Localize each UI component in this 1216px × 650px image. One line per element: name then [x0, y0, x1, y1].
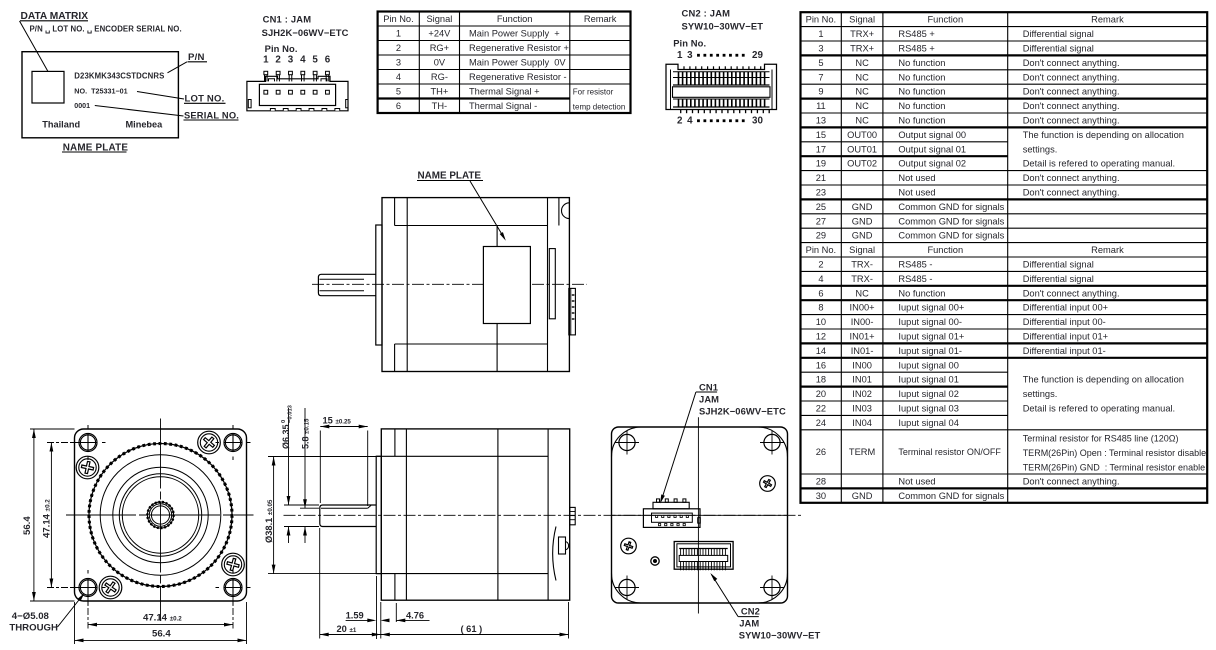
svg-text:Main Power Supply +: Main Power Supply +: [469, 29, 560, 39]
rear view: hole top-right: [764, 434, 780, 450]
svg-text:Signal: Signal: [849, 15, 875, 25]
svg-text:TH-: TH-: [432, 101, 448, 111]
side view top: front flange: [376, 225, 382, 345]
svg-text:15: 15: [816, 130, 826, 140]
svg-text:0V: 0V: [434, 58, 446, 68]
svg-text:Differential input 00+: Differential input 00+: [1023, 303, 1108, 313]
front view: screw top-left: [76, 456, 99, 479]
side view top: name plate on motor: [483, 247, 530, 324]
svg-text:Differential input 01-: Differential input 01-: [1023, 346, 1106, 356]
svg-text:Differential input 01+: Differential input 01+: [1023, 332, 1108, 342]
svg-text:22: 22: [816, 404, 826, 414]
svg-text:30: 30: [752, 116, 763, 127]
side view bottom: stator lines: [376, 455, 548, 457]
side view top: front endbell lines: [394, 198, 396, 226]
rear view: corner arc bottom-left: [612, 574, 642, 604]
svg-text:Thermal Signal -: Thermal Signal -: [469, 101, 537, 111]
svg-text:28: 28: [816, 477, 826, 487]
svg-text:Iuput signal 00+: Iuput signal 00+: [898, 303, 964, 313]
side view top: motor body outline: [382, 198, 569, 372]
svg-text:CN1: CN1: [699, 381, 718, 392]
svg-text:D23KMK343CSTDCNRS: D23KMK343CSTDCNRS: [74, 71, 164, 80]
dimension 20 +-1: [319, 528, 321, 639]
leader SERIAL NO.: [95, 106, 184, 117]
rear view: screw left-lower: [621, 538, 637, 554]
svg-text:4: 4: [396, 72, 401, 82]
front view: mounting hole bottom-left: [79, 579, 97, 597]
connector CN1 housing top view: [247, 76, 348, 111]
side view top: connector boss rect: [549, 249, 555, 319]
svg-text:1: 1: [396, 29, 401, 39]
svg-text:16: 16: [816, 360, 826, 370]
svg-text:18: 18: [816, 375, 826, 385]
svg-text:Thermal Signal +: Thermal Signal +: [469, 87, 540, 97]
side view top: center line: [312, 283, 587, 285]
svg-text:Differential signal: Differential signal: [1023, 44, 1094, 54]
svg-text:TRX+: TRX+: [850, 44, 874, 54]
svg-text:2: 2: [818, 260, 823, 270]
svg-text:Detail is refered to operating: Detail is refered to operating manual.: [1023, 159, 1175, 169]
svg-text:19: 19: [816, 159, 826, 169]
svg-text:No function: No function: [898, 72, 945, 82]
front view: mounting hole top-left: [79, 434, 97, 452]
side view top: rear connector edge: [569, 288, 576, 335]
svg-text:Don't connect anything.: Don't connect anything.: [1023, 477, 1120, 487]
side view top: rear screw boss arc: [558, 198, 560, 226]
svg-text:Pin No.: Pin No.: [383, 14, 414, 24]
dimension 5.8 shaft flat: [304, 408, 306, 508]
rear view: crosshair horizontal solid segment: [612, 514, 788, 516]
svg-text:For resistor: For resistor: [573, 88, 614, 97]
table verticals: [840, 12, 842, 503]
svg-text:2 4: 2 4: [677, 116, 694, 127]
CN2 inner walls: [670, 70, 672, 110]
svg-text:Don't connect anything.: Don't connect anything.: [1023, 173, 1120, 183]
svg-text:Output signal 02: Output signal 02: [898, 159, 966, 169]
svg-text:Remark: Remark: [584, 14, 617, 24]
svg-text:29: 29: [816, 231, 826, 241]
svg-text:TRX-: TRX-: [851, 274, 873, 284]
dimension 56.4 left: [30, 428, 75, 430]
svg-text:SERIAL NO.: SERIAL NO.: [184, 110, 239, 120]
front view: mounting hole top-right: [224, 434, 242, 452]
CN1 bottom notches: [270, 109, 275, 111]
svg-text:12: 12: [816, 332, 826, 342]
svg-text:IN01+: IN01+: [850, 332, 875, 342]
rear view: CN2 connector: [674, 542, 733, 570]
svg-text:RS485 +: RS485 +: [898, 29, 934, 39]
rear view: body outline: [612, 427, 788, 603]
side view bottom: rear screw detail: [559, 537, 566, 554]
svg-text:5: 5: [312, 55, 318, 66]
side view top: shaft: [318, 274, 376, 295]
svg-text:CN2: CN2: [741, 605, 760, 616]
svg-text:RG+: RG+: [430, 43, 449, 53]
svg-text:Detail is refered to operating: Detail is refered to operating manual.: [1023, 404, 1175, 414]
connector CN2 top view housing: [666, 64, 777, 109]
svg-text:4−Ø5.08: 4−Ø5.08: [12, 611, 50, 622]
CN1 contact squares: [264, 90, 268, 94]
svg-text:No function: No function: [898, 288, 945, 298]
svg-text:Terminal resistor for RS485 li: Terminal resistor for RS485 line (120Ω): [1023, 433, 1179, 443]
rear view: ground screw: [651, 557, 659, 565]
name plate box: [22, 52, 178, 138]
svg-text:IN04: IN04: [852, 418, 872, 428]
svg-text:JAM: JAM: [739, 618, 759, 629]
svg-text:IN00+: IN00+: [850, 303, 875, 313]
rear view: corner arc bottom-right: [758, 574, 788, 604]
svg-text:56.4: 56.4: [22, 516, 33, 535]
side view bottom: rear shaft stub: [570, 507, 576, 524]
svg-text:Not used: Not used: [898, 477, 935, 487]
svg-text:Iuput signal 04: Iuput signal 04: [898, 418, 958, 428]
svg-text:1: 1: [818, 29, 823, 39]
side view bottom: center line: [284, 514, 802, 516]
svg-text:GND: GND: [852, 231, 873, 241]
svg-text:No function: No function: [898, 58, 945, 68]
svg-text:Not used: Not used: [898, 173, 935, 183]
svg-text:29: 29: [752, 50, 763, 61]
leader name plate: [470, 181, 504, 238]
rear view: corner arc top-left: [612, 427, 642, 457]
svg-text:Differential input 00-: Differential input 00-: [1023, 317, 1106, 327]
svg-text:RS485 -: RS485 -: [898, 274, 932, 284]
front view: pilot boss circles: [119, 474, 201, 556]
svg-text:Common GND for signals: Common GND for signals: [898, 202, 1004, 212]
side view top: mid body line: [496, 226, 498, 247]
svg-text:Iuput signal 00-: Iuput signal 00-: [898, 317, 962, 327]
svg-text:Pin No.: Pin No.: [673, 38, 706, 49]
svg-text:THROUGH: THROUGH: [9, 623, 58, 634]
CN2 bottom pins: [680, 110, 682, 114]
dimension O38.1: [268, 456, 376, 458]
svg-text:25: 25: [816, 202, 826, 212]
svg-text:Ø6.35: Ø6.35: [281, 424, 291, 449]
svg-text:NC: NC: [855, 58, 869, 68]
svg-text:TERM(26Pin) GND : Terminal re: TERM(26Pin) GND : Terminal resistor enab…: [1023, 462, 1205, 472]
front view: square body: [75, 429, 247, 601]
svg-text:6: 6: [396, 101, 401, 111]
svg-text:CN2 : JAM: CN2 : JAM: [682, 8, 731, 19]
svg-text:GND: GND: [852, 216, 873, 226]
svg-text:Function: Function: [927, 245, 963, 255]
svg-text:NC: NC: [855, 72, 869, 82]
svg-text:P/N ␣ LOT NO. ␣ ENCODER SERIAL: P/N ␣ LOT NO. ␣ ENCODER SERIAL NO.: [30, 25, 182, 34]
svg-text:TERM: TERM: [849, 447, 875, 457]
front view: mounting hole bottom-right: [224, 579, 242, 597]
side view bottom: rear cover arc: [553, 527, 556, 581]
svg-text:1.59: 1.59: [346, 610, 364, 620]
svg-text:Thailand: Thailand: [42, 119, 80, 129]
svg-text:27: 27: [816, 216, 826, 226]
svg-text:Terminal resistor ON/OFF: Terminal resistor ON/OFF: [898, 447, 1001, 457]
CN2 upper comb: [673, 71, 770, 73]
svg-text:8: 8: [818, 303, 823, 313]
dimension O6.35 shaft: [288, 408, 290, 505]
svg-text:11: 11: [816, 101, 826, 111]
svg-text:OUT00: OUT00: [847, 130, 877, 140]
svg-text:Remark: Remark: [1091, 15, 1124, 25]
front view: hub rings: [147, 502, 173, 528]
svg-text:5: 5: [396, 87, 401, 97]
svg-text:Differential signal: Differential signal: [1023, 274, 1094, 284]
leader LOT NO.: [137, 92, 184, 100]
rear view: hole bottom-right: [764, 579, 780, 595]
CN1 side tab right: [346, 100, 348, 108]
svg-text:Main Power Supply 0V: Main Power Supply 0V: [469, 58, 566, 68]
svg-text:+24V: +24V: [428, 29, 451, 39]
svg-text:Common GND for signals: Common GND for signals: [898, 216, 1004, 226]
svg-text:NO. T25331−01: NO. T25331−01: [74, 87, 127, 96]
svg-text:IN00-: IN00-: [851, 317, 874, 327]
CN2 lower comb: [673, 98, 770, 100]
svg-text:NC: NC: [855, 101, 869, 111]
svg-text:SYW10−30WV−ET: SYW10−30WV−ET: [739, 630, 821, 641]
svg-text:Don't connect anything.: Don't connect anything.: [1023, 58, 1120, 68]
dimension 1.59: [376, 576, 378, 639]
dimension (61): [568, 602, 570, 639]
svg-text:settings.: settings.: [1023, 144, 1058, 154]
svg-text:No function: No function: [898, 87, 945, 97]
svg-text:4: 4: [300, 55, 306, 66]
svg-text:Output signal 01: Output signal 01: [898, 144, 966, 154]
svg-text:Regenerative Resistor +: Regenerative Resistor +: [469, 43, 569, 53]
svg-text:SYW10−30WV−ET: SYW10−30WV−ET: [682, 21, 764, 32]
svg-text:Don't connect anything.: Don't connect anything.: [1023, 188, 1120, 198]
svg-text:6: 6: [325, 55, 331, 66]
svg-text:7: 7: [818, 72, 823, 82]
dimension 4.76: [395, 603, 397, 622]
svg-text:IN03: IN03: [852, 404, 872, 414]
CN2 top tiny pins: [683, 66, 685, 69]
svg-text:No function: No function: [898, 116, 945, 126]
front view: circle r60: [100, 455, 221, 576]
CN1 pin prongs: [264, 71, 268, 74]
svg-text:Pin No.: Pin No.: [806, 245, 837, 255]
table horizontal rules (odd section): [801, 26, 1208, 28]
svg-text:Iuput signal 01+: Iuput signal 01+: [898, 332, 964, 342]
CN2 middle slot: [673, 87, 771, 98]
svg-text:3: 3: [288, 55, 294, 66]
svg-text:Iuput signal 01: Iuput signal 01: [898, 375, 958, 385]
svg-text:Iuput signal 00: Iuput signal 00: [898, 360, 958, 370]
svg-text:0001: 0001: [74, 102, 90, 110]
svg-text:13: 13: [816, 116, 826, 126]
table horizontal rules (even section): [801, 270, 1208, 272]
rear view: hole top-left: [619, 434, 635, 450]
svg-text:TRX+: TRX+: [850, 29, 874, 39]
svg-text:TERM(26Pin) Open : Terminal re: TERM(26Pin) Open : Terminal resistor dis…: [1023, 448, 1206, 458]
svg-text:Signal: Signal: [426, 14, 452, 24]
svg-text:RS485 -: RS485 -: [898, 260, 932, 270]
leader CN2 rear: [712, 575, 739, 617]
svg-text:10: 10: [816, 317, 826, 327]
rear view: corner arc top-right: [758, 427, 788, 457]
svg-text:14: 14: [816, 346, 826, 356]
side view bottom: shaft flat line: [321, 507, 368, 509]
svg-text:Iuput signal 02: Iuput signal 02: [898, 389, 958, 399]
svg-text:Pin No.: Pin No.: [265, 43, 298, 54]
svg-text:Signal: Signal: [849, 245, 875, 255]
svg-text:Don't connect anything.: Don't connect anything.: [1023, 101, 1120, 111]
svg-text:Common GND for signals: Common GND for signals: [898, 231, 1004, 241]
svg-text:RS485 +: RS485 +: [898, 44, 934, 54]
svg-text:Don't connect anything.: Don't connect anything.: [1023, 288, 1120, 298]
svg-text:OUT02: OUT02: [847, 159, 877, 169]
rear view: hole bottom-left: [619, 579, 635, 595]
svg-text:4.76: 4.76: [406, 610, 424, 620]
svg-text:2: 2: [396, 43, 401, 53]
svg-text:23: 23: [816, 188, 826, 198]
side view top: stator boundary lines: [395, 225, 548, 227]
rear view: screw right-upper: [760, 476, 776, 492]
svg-text:Output signal 00: Output signal 00: [898, 130, 966, 140]
svg-text:3: 3: [396, 58, 401, 68]
svg-text:21: 21: [816, 173, 826, 183]
svg-text:1 3: 1 3: [677, 50, 694, 61]
svg-text:Minebea: Minebea: [126, 119, 164, 129]
svg-text:20: 20: [816, 389, 826, 399]
svg-text:Don't connect anything.: Don't connect anything.: [1023, 72, 1120, 82]
front view: screw bottom-right: [222, 553, 245, 576]
svg-text:TH+: TH+: [430, 87, 448, 97]
side view top: rear housing line: [547, 198, 549, 372]
svg-text:Not used: Not used: [898, 188, 935, 198]
svg-text:No function: No function: [898, 101, 945, 111]
rear view: CN1 connector: [643, 509, 700, 528]
front view: center lines: [160, 419, 162, 622]
side view bottom: motor body outline: [381, 429, 569, 600]
svg-text:Pin No.: Pin No.: [806, 15, 837, 25]
svg-text:TRX-: TRX-: [851, 260, 873, 270]
svg-text:9: 9: [818, 87, 823, 97]
dimension 47.14 left: [47, 442, 80, 444]
svg-text:Differential signal: Differential signal: [1023, 260, 1094, 270]
svg-text:56.4: 56.4: [152, 628, 171, 639]
svg-text:Don't connect anything.: Don't connect anything.: [1023, 87, 1120, 97]
dimension 56.4 bottom: [74, 602, 76, 644]
svg-text:temp detection: temp detection: [573, 102, 625, 111]
svg-text:IN01: IN01: [852, 375, 872, 385]
svg-text:The function is depending on a: The function is depending on allocation: [1023, 130, 1184, 140]
leader 4-O5.08: [58, 596, 83, 628]
svg-text:Differential signal: Differential signal: [1023, 29, 1094, 39]
front view: screw top-right: [198, 431, 221, 454]
svg-text:The function is depending on a: The function is depending on allocation: [1023, 375, 1184, 385]
table CN2 pinout: [801, 12, 1208, 503]
svg-text:Common GND for signals: Common GND for signals: [898, 491, 1004, 501]
svg-text:Regenerative Resistor -: Regenerative Resistor -: [469, 72, 567, 82]
svg-text:NC: NC: [855, 87, 869, 97]
svg-text:Iuput signal 01-: Iuput signal 01-: [898, 346, 962, 356]
svg-text:settings.: settings.: [1023, 389, 1058, 399]
leader CN1 rear: [661, 392, 696, 502]
dimension 47.14 bottom: [87, 594, 89, 629]
svg-text:( 61 ): ( 61 ): [461, 624, 483, 634]
svg-text:IN00: IN00: [852, 360, 872, 370]
svg-text:2: 2: [275, 55, 281, 66]
svg-text:Iuput signal 03: Iuput signal 03: [898, 404, 958, 414]
svg-text:Function: Function: [927, 15, 963, 25]
CN1 inner cavity: [259, 84, 335, 105]
dimension 15 +-0.25: [319, 431, 321, 504]
side view bottom: shaft: [320, 505, 377, 527]
svg-text:6: 6: [818, 288, 823, 298]
svg-text:RG-: RG-: [431, 72, 448, 82]
svg-text:SJH2K−06WV−ETC: SJH2K−06WV−ETC: [262, 27, 349, 38]
svg-text:1: 1: [263, 55, 269, 66]
svg-text:OUT01: OUT01: [847, 144, 877, 154]
front view: screw bottom-left: [99, 576, 122, 599]
svg-text:24: 24: [816, 418, 826, 428]
svg-text:4: 4: [818, 274, 823, 284]
table CN1 pinout: [378, 12, 631, 114]
leader P/N: [168, 62, 188, 73]
svg-text:JAM: JAM: [699, 394, 719, 405]
svg-text:0: 0: [281, 420, 287, 423]
svg-text:Function: Function: [497, 14, 533, 24]
svg-text:CN1 : JAM: CN1 : JAM: [263, 14, 312, 25]
CN1 latch notches: [269, 79, 275, 82]
svg-text:5: 5: [818, 58, 823, 68]
svg-text:IN02: IN02: [852, 389, 872, 399]
CN1 side tab left: [248, 100, 251, 108]
side view bottom: front endbell lines: [394, 429, 396, 456]
svg-text:26: 26: [816, 447, 826, 457]
svg-text:Don't connect anything.: Don't connect anything.: [1023, 116, 1120, 126]
svg-text:GND: GND: [852, 202, 873, 212]
svg-text:3: 3: [818, 44, 823, 54]
data matrix square: [32, 71, 64, 103]
svg-text:IN01-: IN01-: [851, 346, 874, 356]
svg-text:NC: NC: [855, 288, 869, 298]
svg-text:NC: NC: [855, 116, 869, 126]
front view: motor body circle (rough): [89, 444, 232, 587]
svg-text:GND: GND: [852, 491, 873, 501]
svg-text:17: 17: [816, 144, 826, 154]
svg-text:SJH2K−06WV−ETC: SJH2K−06WV−ETC: [699, 406, 786, 417]
rear view: crosshair vertical: [697, 417, 699, 613]
svg-text:30: 30: [816, 491, 826, 501]
svg-text:−0.013: −0.013: [288, 404, 294, 423]
front view: circle r47.7: [113, 467, 208, 562]
svg-text:Remark: Remark: [1091, 245, 1124, 255]
leader data matrix: [20, 21, 49, 72]
side view bottom: front flange: [376, 456, 381, 573]
